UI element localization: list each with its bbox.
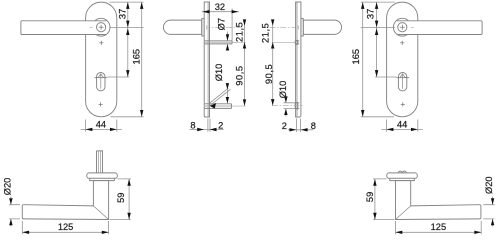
grip capsule — [163, 20, 201, 34]
arrow 44 right — [411, 128, 418, 131]
FIG2 side view (grip to left) — [163, 2, 245, 117]
arrow 32 left — [203, 10, 210, 13]
boss side rect — [301, 19, 303, 37]
plate strip inner line — [207, 2, 209, 117]
svg-text:37: 37 — [366, 9, 376, 19]
svg-text:125: 125 — [58, 222, 74, 232]
arrow 44 right — [110, 128, 117, 131]
arrow 59 top — [373, 179, 376, 186]
svg-text:Ø20: Ø20 — [3, 178, 13, 196]
miter seam — [396, 206, 411, 220]
dim line 2/8 — [288, 129, 313, 131]
arrow 32 right — [232, 10, 239, 13]
dim line 32 — [202, 11, 239, 13]
FIG4 dimensions — [361, 2, 423, 132]
keyhole leader line — [375, 76, 396, 78]
arrow 37 bottom — [126, 21, 129, 28]
arrow 21,5 bottom / 90,5 top — [271, 42, 274, 48]
svg-text:44: 44 — [96, 119, 106, 129]
O20 ext lines — [483, 205, 494, 219]
lower screw cross — [401, 102, 405, 106]
CL tick on strip — [297, 25, 299, 29]
lower fixing centerline ext — [204, 105, 246, 107]
chain dim line 21,5 / 90,5 — [272, 21, 274, 106]
O7 centerline ext — [272, 41, 296, 43]
centerline dash left of boss — [90, 26, 93, 28]
O10 hole edge-on — [296, 103, 300, 109]
ext line handle CL — [109, 26, 143, 28]
FIG5 handle top view left — [22, 151, 117, 220]
plate strip — [296, 2, 301, 117]
plate strip inner line — [296, 2, 298, 117]
keyhole chevron — [400, 74, 406, 78]
arrow 165 bottom — [361, 110, 364, 117]
hatch diagonal 1 — [210, 88, 229, 103]
O10 ext lines — [284, 103, 296, 109]
svg-text:Ø7: Ø7 — [217, 18, 227, 30]
arrow O10 diag upper — [226, 83, 229, 89]
ext line plate bottom — [361, 116, 394, 118]
handle boss inner circle — [97, 23, 106, 32]
FIG6 handle top view right (mirror) — [387, 171, 481, 219]
svg-text:Ø10: Ø10 — [214, 64, 224, 82]
arrow O20 bottom — [9, 219, 12, 225]
svg-text:2: 2 — [282, 121, 287, 131]
arrow 37 top — [375, 2, 378, 9]
upper screw cross — [99, 41, 103, 45]
chain dim line 21,5 / 90,5 — [244, 21, 246, 106]
FIG4 front view right (mirror of FIG1) — [387, 2, 483, 117]
dim line O7 vertical — [227, 32, 229, 51]
arrow 59 bottom — [127, 213, 130, 220]
arrow 165 top — [140, 2, 143, 9]
dim line 125 — [22, 231, 108, 233]
upper screw shank (O7) — [205, 41, 232, 44]
flange under lip — [90, 178, 115, 180]
svg-text:165: 165 — [351, 49, 361, 65]
arrow 37 bottom — [375, 21, 378, 28]
flange under lip — [390, 178, 415, 180]
svg-text:59: 59 — [365, 192, 375, 202]
ext lines 8 and 2 — [208, 119, 210, 132]
dim line 165 — [362, 2, 364, 117]
lower screw cross — [99, 102, 103, 106]
44 ext lines — [86, 120, 117, 132]
spindle end centre tick — [401, 171, 403, 180]
O10 hole capsule — [295, 102, 298, 109]
dim line 44 — [81, 128, 122, 130]
svg-text:125: 125 — [431, 222, 447, 232]
plate (stadium escutcheon) — [387, 2, 418, 117]
FIG3 side view (grip to right) — [270, 2, 342, 117]
svg-text:2: 2 — [218, 121, 223, 131]
125 ext lines — [396, 221, 482, 234]
arrow O10 at body — [226, 97, 229, 103]
handle boss outer circle — [393, 18, 411, 36]
dim line O10 vertical — [285, 95, 287, 117]
arrow O10 top — [284, 96, 287, 102]
dim line 165 — [141, 2, 143, 117]
dim line 59 — [128, 179, 130, 220]
arrow 59 top — [127, 179, 130, 186]
lower fixing (O10) body — [205, 104, 232, 109]
O10 centerline ext — [272, 105, 303, 107]
upper screw cross — [400, 41, 404, 45]
handle centerline — [194, 26, 242, 28]
keyhole cross arm — [396, 77, 409, 79]
dim line 125 — [396, 231, 482, 233]
dim line 37 and chain — [376, 2, 378, 77]
arrow 125 left — [396, 231, 403, 234]
spindle end bump (two humps) — [398, 171, 406, 173]
arrow 125 left — [22, 231, 29, 234]
hatch diagonal 2 — [210, 89, 231, 106]
arrow 8 right — [301, 128, 308, 131]
dim line 8/2 — [190, 129, 224, 131]
dim line O20 — [492, 197, 494, 227]
FIG1 front view left — [21, 2, 117, 117]
arrow 2 right — [210, 128, 217, 131]
FIG1 dimensions — [81, 2, 144, 132]
svg-text:37: 37 — [117, 9, 127, 19]
spindle square bar — [97, 151, 103, 173]
O7 hole edge-on — [296, 41, 300, 44]
arrow O7 top — [226, 34, 229, 40]
svg-text:8: 8 — [311, 121, 316, 131]
plate strip — [204, 2, 209, 117]
ext line plate top — [110, 1, 144, 3]
keyhole inner slot line — [402, 74, 404, 88]
ext line 32 right — [231, 9, 233, 41]
arrow 21,5 top — [243, 19, 246, 25]
handle boss outer circle — [92, 18, 110, 36]
handle centerline — [270, 26, 304, 28]
dim line O20 — [10, 197, 12, 227]
arrow chain bottom at keyhole — [126, 70, 129, 77]
arrow chain top — [375, 28, 378, 35]
ext lines 2 and 8 — [297, 119, 301, 133]
arrow 165 bottom — [140, 110, 143, 117]
svg-text:44: 44 — [397, 119, 407, 129]
arrow 90,5 bottom — [271, 99, 274, 105]
arrow chain top — [126, 28, 129, 35]
arrow 125 right — [474, 231, 481, 234]
svg-text:21,5: 21,5 — [261, 23, 271, 43]
svg-text:Ø20: Ø20 — [484, 176, 494, 194]
arrow 90,5 bottom — [243, 99, 246, 105]
arrow 44 left — [387, 128, 394, 131]
svg-text:8: 8 — [190, 121, 195, 131]
keyhole cross arm — [94, 77, 107, 79]
arrow 37 top — [126, 2, 129, 9]
spindle cross in boss — [400, 25, 405, 30]
arrow O10 bottom — [284, 109, 287, 115]
boss side rect — [202, 19, 204, 37]
ext line handle CL — [361, 26, 395, 28]
lower fixing mid line — [205, 105, 232, 107]
flange — [87, 173, 118, 178]
arrow O7 bottom — [226, 44, 229, 50]
arrow 2 left — [289, 128, 296, 131]
lever grip bar — [21, 21, 107, 35]
svg-text:21,5: 21,5 — [234, 22, 244, 42]
keyhole chevron — [98, 74, 104, 78]
ext line plate top — [361, 1, 395, 3]
dim line 37 and chain — [127, 2, 129, 77]
arrow 21,5 top — [271, 19, 274, 25]
O20 ext lines — [9, 205, 20, 219]
spindle cross in boss — [99, 25, 104, 30]
O7 hole capsule — [295, 40, 298, 44]
59 ext lines — [110, 179, 132, 220]
arrow 8 left — [197, 128, 204, 131]
lever grip bar — [397, 21, 482, 35]
44 ext lines — [387, 120, 418, 132]
keyhole leader line — [107, 76, 129, 78]
arrow O20 top — [491, 198, 494, 204]
grip capsule — [303, 20, 341, 34]
arrow 21,5 bottom / 90,5 top — [243, 42, 246, 48]
svg-text:32: 32 — [215, 2, 225, 12]
dim line 44 — [382, 128, 423, 130]
svg-text:59: 59 — [116, 193, 126, 203]
svg-text:165: 165 — [132, 49, 142, 65]
svg-text:90,5: 90,5 — [264, 64, 274, 84]
arrow O20 top — [9, 198, 12, 204]
125 ext lines — [22, 221, 108, 234]
svg-text:Ø10: Ø10 — [278, 81, 288, 99]
CL tick on strip — [206, 25, 208, 29]
ext line plate bottom — [111, 116, 144, 118]
handle boss inner circle — [398, 23, 407, 32]
arrow 44 left — [86, 128, 93, 131]
spindle inner corner lines — [98, 151, 100, 173]
dim line O10 vertical — [226, 85, 228, 104]
upper screw centerline — [204, 41, 246, 43]
arrow 165 top — [361, 2, 364, 9]
dim line 59 — [374, 179, 376, 220]
arrow 59 bottom — [373, 213, 376, 220]
arrow chain bottom at keyhole — [375, 70, 378, 77]
miter seam — [93, 206, 108, 220]
keyhole inner slot line — [100, 74, 102, 88]
arrow O20 bottom — [491, 219, 494, 225]
flange — [387, 173, 418, 178]
neck and grip L-shape — [22, 181, 108, 220]
arrow at diagonal lower end — [210, 103, 216, 109]
keyhole outline — [398, 73, 406, 91]
centerline dash right of boss — [411, 26, 414, 28]
neck and grip L-shape — [396, 181, 481, 220]
plate (stadium escutcheon) — [86, 2, 117, 117]
keyhole outline — [97, 72, 105, 90]
arrow 125 right — [102, 231, 109, 234]
svg-text:90,5: 90,5 — [234, 65, 244, 85]
59 ext lines — [373, 179, 395, 220]
